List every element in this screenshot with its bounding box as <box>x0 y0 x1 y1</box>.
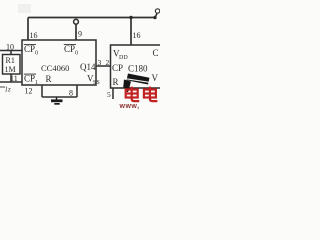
resistor R1 box <box>3 55 21 75</box>
svg-text:2: 2 <box>106 58 110 67</box>
wire left VDD drop to pin 16 of U1 <box>27 18 29 41</box>
svg-text:CP: CP <box>24 44 35 54</box>
wire ground link <box>42 96 77 98</box>
background <box>0 0 160 110</box>
watermark logo cap (black) <box>123 74 149 92</box>
wire R1 bottom lead <box>10 74 12 82</box>
node junction dot at U2 VDD drop <box>129 16 132 19</box>
svg-text:8: 8 <box>69 89 73 98</box>
wire right VDD drop to pin 16 of U2 <box>130 18 132 46</box>
svg-text:CP: CP <box>64 44 75 54</box>
svg-text:12: 12 <box>25 87 33 96</box>
wire R1 top lead <box>10 51 12 55</box>
wire pin 9 to U1 top <box>75 24 77 40</box>
svg-text:www,: www, <box>119 103 140 110</box>
svg-text:R: R <box>46 74 52 84</box>
wire U2 pin 5 down <box>112 88 114 99</box>
svg-text:Q14: Q14 <box>80 62 96 72</box>
U1 pin label VSS (pin 8) <box>87 74 100 87</box>
node junction dot at supply terminal <box>153 16 156 19</box>
wire pin 12 down from U1 <box>41 85 43 97</box>
svg-text:1: 1 <box>35 80 38 86</box>
IC U1 CC4060 box <box>22 40 96 85</box>
svg-text:16: 16 <box>133 31 141 40</box>
svg-text:CP: CP <box>112 63 123 73</box>
U1 pin label CP0bar (pin 9, top-middle inside) <box>64 44 78 57</box>
svg-text:16: 16 <box>30 31 38 40</box>
svg-text:0: 0 <box>35 51 38 57</box>
wire pin 8 down from U1 <box>76 85 78 97</box>
ground symbol <box>51 97 63 105</box>
svg-text:R1: R1 <box>6 56 15 65</box>
U2 pin label VDD (pin 16) <box>113 49 128 62</box>
terminal circle pin 9 oscillator output <box>74 19 79 24</box>
wire pin 11 (CP1bar) from left edge <box>0 81 22 83</box>
wire stub to supply terminal <box>155 14 157 18</box>
svg-text:CC4060: CC4060 <box>41 63 69 73</box>
wire pin 10 (CP0bar) from left edge <box>0 50 22 52</box>
svg-text:V: V <box>152 73 159 83</box>
watermark character 2 (red dian, clipped) <box>144 87 158 102</box>
wire Q14 (pin 3) to U2 CP (pin 2) <box>96 65 111 67</box>
wire VDD top rail <box>28 17 156 19</box>
svg-text:C: C <box>153 48 159 58</box>
svg-text:0: 0 <box>75 51 78 57</box>
svg-text:5: 5 <box>107 90 111 99</box>
svg-text:10: 10 <box>6 43 14 52</box>
terminal circle VDD supply (top right, clipped) <box>155 9 159 13</box>
watermark character 1 (red dian) <box>126 87 140 102</box>
U1 pin label CP0bar (pin 10, top-left inside) <box>24 44 38 57</box>
svg-text:DD: DD <box>119 55 128 61</box>
svg-text:9: 9 <box>78 30 82 39</box>
svg-text:1M: 1M <box>5 65 16 74</box>
U1 pin label CP1bar (pin 11, bottom-left inside) <box>24 74 38 87</box>
svg-text:1z: 1z <box>5 86 12 94</box>
wire stub far-left (cut off at edge) <box>0 86 5 88</box>
svg-text:SS: SS <box>93 80 100 86</box>
svg-text:C180: C180 <box>128 64 148 74</box>
svg-text:CP: CP <box>24 74 35 84</box>
IC U2 C180 box (clipped at right edge) <box>111 45 163 88</box>
svg-text:3: 3 <box>98 58 102 67</box>
svg-text:R: R <box>113 77 119 87</box>
